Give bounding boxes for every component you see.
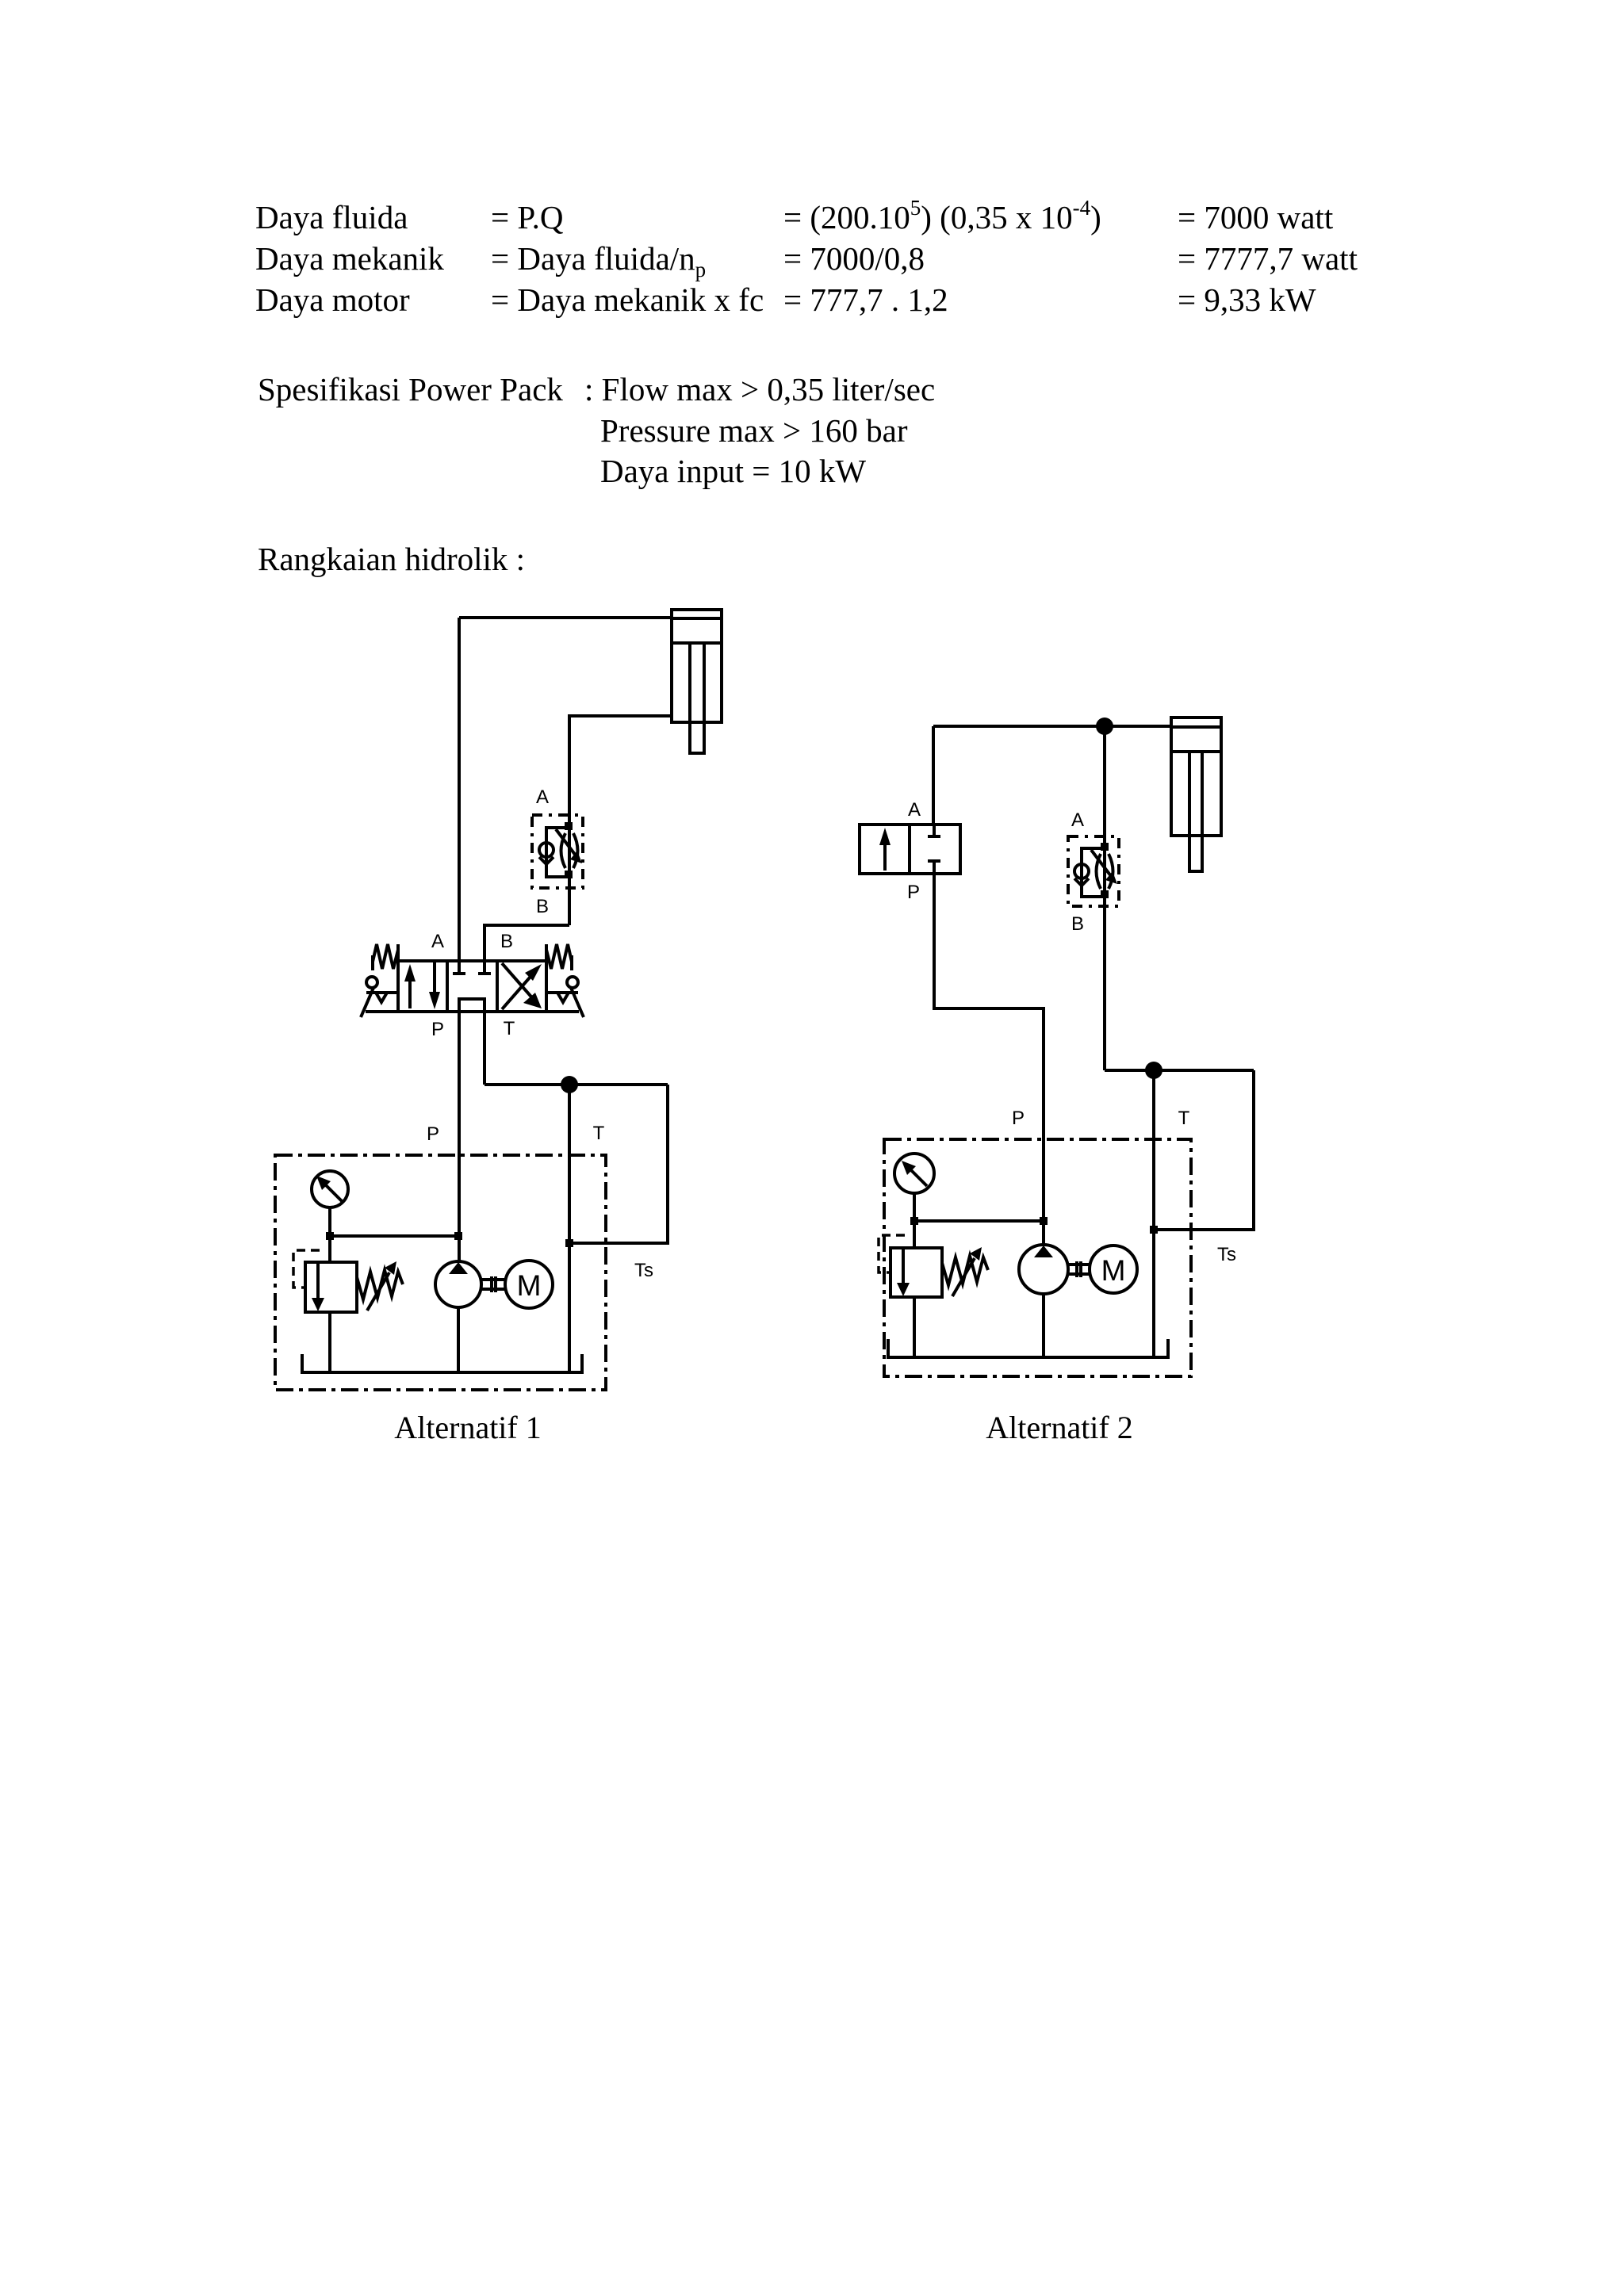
svg-text:= 9,33 kW: = 9,33 kW <box>1178 281 1316 318</box>
cylinder C1 piston <box>672 617 722 620</box>
node gauge junction <box>326 1232 334 1240</box>
svg-text:Ts: Ts <box>634 1260 653 1281</box>
motor M2 <box>1090 1246 1137 1293</box>
relief valve RV1 pilot line <box>293 1250 320 1288</box>
coupling K1 <box>481 1278 504 1281</box>
wire P-line valve to pump <box>458 1012 461 1262</box>
node Ts junction <box>1150 1226 1158 1234</box>
valve V1 left cell up arrow <box>408 978 412 1008</box>
wire T vertical into tank <box>568 1085 571 1372</box>
valve V1 right end plate <box>545 944 548 961</box>
relief valve RV1 spring <box>357 1270 403 1299</box>
svg-text:A: A <box>908 799 921 821</box>
wire Ts loop right <box>569 1085 668 1243</box>
throttle TH1 arcs <box>561 833 566 868</box>
wire A-line vertical to valve port A <box>458 618 461 961</box>
relief valve RV1 body <box>305 1262 357 1312</box>
throttle TH2 arrow <box>1091 850 1111 876</box>
svg-text:B: B <box>1071 913 1084 935</box>
gauge G2 <box>894 1154 934 1193</box>
flow control FC2 enclosure <box>1068 836 1119 906</box>
valve V2 divider <box>908 825 911 874</box>
valve V1 left cell down arrow <box>433 962 436 993</box>
valve V1 center blocked A <box>458 961 461 974</box>
relief valve RV1 arrow <box>316 1264 320 1300</box>
cylinder C1 barrel <box>672 610 722 722</box>
svg-text:Ts: Ts <box>1217 1244 1236 1265</box>
check valve CV1 <box>539 843 553 857</box>
wire rod-side port to flow control <box>569 716 672 925</box>
cylinder C1 rod <box>688 643 691 753</box>
svg-text:= 777,7 . 1,2: = 777,7 . 1,2 <box>783 281 948 318</box>
valve V2 blocked P <box>928 859 940 863</box>
svg-text:Rangkaian hidrolik :: Rangkaian hidrolik : <box>258 541 525 577</box>
DIAGRAM ALTERNATIF 2 <box>860 717 1254 1376</box>
wire valve P to power pack <box>934 874 1044 1246</box>
svg-text:= 7000 watt: = 7000 watt <box>1178 199 1334 235</box>
motor M1 <box>505 1261 553 1308</box>
check valve CV2 <box>1074 864 1089 878</box>
relief valve RV1 inlet <box>328 1236 331 1262</box>
node Ts junction <box>565 1239 573 1247</box>
relief valve RV1 adjust arrow <box>367 1272 389 1311</box>
pump PU1 <box>435 1261 481 1307</box>
valve V2 left cell up arrow <box>883 842 887 871</box>
wire valve A vertical <box>932 726 935 825</box>
node gauge junction <box>910 1217 918 1225</box>
svg-text:T: T <box>593 1123 605 1144</box>
svg-text:= P.Q: = P.Q <box>491 199 564 235</box>
wire gauge to P-line <box>914 1219 1044 1223</box>
valve V1 divider left <box>446 961 449 1012</box>
svg-text:= Daya mekanik x fc: = Daya mekanik x fc <box>491 281 764 318</box>
wire Ts loop right <box>1154 1070 1254 1230</box>
valve V1 body <box>398 961 546 1012</box>
relief valve RV2 spring <box>942 1256 988 1285</box>
valve V1 left end plate <box>396 944 400 961</box>
wire A-line top horizontal <box>459 616 672 619</box>
svg-text:= 7777,7 watt: = 7777,7 watt <box>1178 240 1358 277</box>
svg-text:Alternatif 2: Alternatif 2 <box>986 1410 1133 1445</box>
node T junction <box>561 1076 578 1093</box>
node B junction <box>1145 1062 1162 1079</box>
throttle TH1 arrow <box>556 829 576 855</box>
svg-text:T: T <box>1178 1108 1190 1129</box>
svg-text:P: P <box>907 882 920 903</box>
svg-text:T: T <box>504 1018 515 1039</box>
pump PU1 suction <box>457 1307 460 1372</box>
spring S2 right <box>570 955 573 970</box>
cylinder C2 rod <box>1188 752 1191 871</box>
cylinder C2 piston <box>1171 725 1221 729</box>
svg-text:B: B <box>536 896 549 917</box>
TEXT BLOCK <box>255 196 1358 577</box>
node FC2 top <box>1101 843 1109 851</box>
node P junction <box>454 1232 462 1240</box>
coupling K2 <box>1068 1263 1090 1266</box>
svg-text:= Daya fluida/np: = Daya fluida/np <box>491 240 706 281</box>
relief valve RV2 arrow <box>902 1249 905 1285</box>
valve V2 blocked A <box>933 825 936 835</box>
pump PU2 suction <box>1042 1294 1045 1357</box>
svg-text:A: A <box>431 931 444 952</box>
svg-text:P: P <box>1012 1108 1025 1129</box>
wire B-line horizontal <box>1105 1069 1254 1072</box>
gauge G1 <box>312 1171 348 1207</box>
node FC1 bottom <box>565 871 573 878</box>
throttle TH2 arcs <box>1097 854 1101 889</box>
svg-text:A: A <box>536 786 549 808</box>
relief valve RV2 drain <box>913 1297 916 1357</box>
flow control FC1 enclosure <box>532 815 583 888</box>
power pack PP2 enclosure <box>884 1139 1191 1376</box>
valve V1 center P-T bridge <box>459 999 485 1012</box>
svg-text:P: P <box>431 1019 444 1040</box>
svg-text:Daya motor: Daya motor <box>255 281 410 318</box>
svg-text:Daya fluida: Daya fluida <box>255 199 408 235</box>
DIAGRAM ALTERNATIF 1 <box>275 610 722 1390</box>
wire top A-line horizontal <box>933 725 1171 728</box>
node P junction <box>1040 1217 1048 1225</box>
relief valve RV2 inlet <box>913 1221 916 1248</box>
valve V2 body <box>860 825 960 874</box>
svg-text:M: M <box>517 1269 542 1302</box>
node FC1 top <box>565 822 573 830</box>
power pack PP1 enclosure <box>275 1155 606 1390</box>
wire T vertical into tank <box>1152 1070 1155 1358</box>
valve V1 divider right <box>496 961 499 1012</box>
svg-text:= (200.105) (0,35 x 10-4): = (200.105) (0,35 x 10-4) <box>783 196 1101 235</box>
wire check valve branch <box>1082 848 1105 897</box>
svg-text:Daya input = 10 kW: Daya input = 10 kW <box>600 453 866 489</box>
wire B jog to valve port B <box>485 925 569 961</box>
relief valve RV2 body <box>891 1248 942 1297</box>
cylinder C2 barrel <box>1171 717 1221 836</box>
lever L2 right <box>567 977 578 988</box>
lever L1 left <box>366 977 377 988</box>
svg-text:Pressure max > 160 bar: Pressure max > 160 bar <box>600 412 908 449</box>
valve V1 right cell cross arrows <box>502 971 535 1009</box>
wire check valve branch <box>546 828 569 877</box>
relief valve RV2 pilot line <box>879 1235 905 1272</box>
tank TK2 <box>888 1339 1168 1357</box>
relief valve RV1 drain <box>328 1312 331 1372</box>
relief valve RV2 adjust arrow <box>952 1258 975 1296</box>
svg-text:Alternatif 1: Alternatif 1 <box>394 1410 542 1445</box>
svg-text:Daya mekanik: Daya mekanik <box>255 240 444 277</box>
node FC2 bottom <box>1101 890 1109 898</box>
svg-text:P: P <box>427 1123 439 1145</box>
pump PU2 <box>1019 1245 1068 1294</box>
svg-text:Spesifikasi Power Pack: Spesifikasi Power Pack <box>258 371 563 408</box>
tank TK1 <box>302 1354 582 1372</box>
svg-text:= 7000/0,8: = 7000/0,8 <box>783 240 925 277</box>
wire T-line valve down <box>483 1012 486 1085</box>
svg-text:M: M <box>1101 1254 1126 1287</box>
svg-text:: Flow max > 0,35 liter/sec: : Flow max > 0,35 liter/sec <box>584 371 935 408</box>
spring S1 left <box>371 955 374 970</box>
svg-text:A: A <box>1071 809 1084 831</box>
wire gauge to P-line <box>330 1234 458 1238</box>
svg-text:B: B <box>500 931 513 952</box>
node top junction <box>1096 717 1113 735</box>
wire T horizontal <box>485 1083 668 1086</box>
valve V1 center blocked B <box>483 961 486 974</box>
wire flow-control line vertical <box>1103 726 1106 1070</box>
